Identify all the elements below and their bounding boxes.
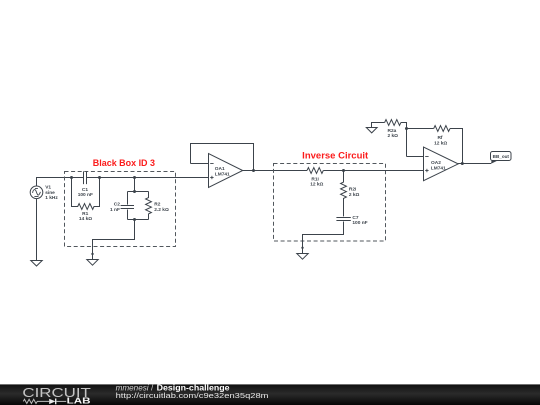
- resistor Rf: [434, 126, 450, 132]
- inverse circuit dashed boundary: [274, 164, 386, 242]
- V1 value labels: [45, 185, 58, 202]
- wire main input line right of C1 to OA1 plus input: [87, 177, 209, 179]
- svg-text:LM741: LM741: [215, 172, 230, 178]
- node dot bottom of C2/R2 pair: [133, 218, 136, 221]
- svg-text:OA2: OA2: [431, 160, 441, 166]
- ground (R2a): [366, 128, 377, 133]
- node dot summing node: [405, 127, 408, 130]
- svg-text:R2a: R2a: [387, 128, 396, 134]
- wire top bar of C2/R2 pair: [128, 191, 149, 193]
- CircuitLab logo resistor zigzag: [23, 399, 49, 403]
- ground (inverse circuit): [297, 254, 308, 260]
- C7 value labels: [352, 215, 367, 226]
- svg-text:2 kΩ: 2 kΩ: [387, 133, 398, 139]
- Rf value labels: [434, 135, 447, 146]
- ground (V1): [31, 261, 42, 267]
- svg-text:2 kΩ: 2 kΩ: [349, 192, 360, 198]
- svg-text:LAB: LAB: [67, 396, 91, 405]
- ground (black box): [87, 260, 98, 266]
- svg-text:C1: C1: [82, 187, 88, 193]
- R1i value labels: [310, 176, 323, 187]
- op-amp OA1: [209, 154, 243, 188]
- svg-text:1 kHz: 1 kHz: [45, 195, 58, 201]
- wire bottom bar of C2/R2 pair: [128, 219, 149, 221]
- resistor R2i with leads: [341, 171, 347, 217]
- wire C7 to ground: [303, 222, 344, 254]
- C1 value labels: [78, 187, 93, 198]
- svg-text:V1: V1: [45, 185, 51, 191]
- wire OA1 output to inverse circuit: [243, 170, 307, 172]
- R1 value labels: [79, 211, 92, 222]
- svg-text:R2: R2: [154, 202, 160, 208]
- wire summing node to OA2 inverting input: [407, 156, 424, 158]
- wire R2a to summing node: [401, 123, 407, 157]
- resistor R1i: [307, 168, 323, 174]
- capacitor C7: [336, 218, 350, 221]
- wire main input line left of C1: [36, 177, 84, 179]
- wire from main line down to C2/R2 pair: [134, 178, 136, 192]
- svg-text:Rf: Rf: [437, 135, 442, 141]
- R2 value labels: [154, 202, 169, 213]
- op-amp OA2: [424, 147, 459, 181]
- black box dashed boundary: [65, 172, 176, 247]
- svg-text:12 kΩ: 12 kΩ: [434, 140, 447, 146]
- wire OA1 inverting input stub: [191, 163, 209, 165]
- resistor R2a: [385, 120, 401, 126]
- svg-text:R2i: R2i: [349, 187, 356, 193]
- wire black box to ground: [93, 220, 135, 260]
- capacitor C2 with branch wires: [121, 192, 134, 220]
- wire summing node to Rf: [407, 128, 434, 130]
- net flag BB_out: [491, 152, 512, 164]
- R2a value labels: [387, 128, 398, 139]
- resistor R1 with branch wires: [72, 178, 100, 210]
- node dot OA1 output: [252, 169, 255, 172]
- svg-text:Black Box ID 3: Black Box ID 3: [93, 158, 155, 168]
- svg-text:R1: R1: [82, 211, 88, 217]
- svg-text:14 kΩ: 14 kΩ: [79, 216, 92, 222]
- node dot on inverse circuit ground lead: [301, 247, 303, 249]
- node dot top of C2/R2 pair: [133, 190, 136, 193]
- node dot OA2 output: [461, 162, 464, 165]
- node dot left of C1: [70, 176, 73, 179]
- svg-text:100 nF: 100 nF: [352, 220, 367, 226]
- capacitor C1: [84, 171, 87, 184]
- R2i value labels: [349, 187, 360, 199]
- wire V1 top lead: [36, 178, 38, 187]
- svg-text:1 nF: 1 nF: [110, 207, 120, 213]
- wire ground to R2a: [372, 123, 385, 128]
- wire OA2 output: [458, 163, 491, 165]
- svg-text:C2: C2: [114, 202, 120, 208]
- voltage source V1: [30, 186, 43, 199]
- svg-text:12 kΩ: 12 kΩ: [310, 182, 323, 188]
- node dot at C2/R2 branch on main wire: [133, 176, 136, 179]
- svg-text:http://circuitlab.com/c9e32en3: http://circuitlab.com/c9e32en35q28m: [116, 391, 269, 400]
- svg-text:Inverse Circuit: Inverse Circuit: [302, 151, 368, 161]
- svg-text:2.2 kΩ: 2.2 kΩ: [154, 207, 169, 213]
- node dot R1i/R2i junction: [342, 169, 345, 172]
- node dot on black box ground lead: [91, 253, 93, 255]
- wire OA1 feedback loop: [191, 144, 254, 171]
- resistor R2 with branch wires: [146, 192, 152, 220]
- wire V1 bottom lead: [36, 199, 38, 261]
- svg-text:100 nF: 100 nF: [78, 192, 93, 198]
- wire Rf to OA2 output: [450, 129, 463, 164]
- wire R1i to OA2 plus input: [323, 170, 423, 172]
- svg-text:OA1: OA1: [215, 166, 225, 172]
- footer bar: [0, 384, 540, 405]
- svg-text:BB_out: BB_out: [493, 154, 510, 159]
- CircuitLab logo diode: [49, 399, 66, 405]
- node dot right of C1: [98, 176, 101, 179]
- C2 value labels: [110, 202, 120, 213]
- svg-text:LM741: LM741: [431, 166, 446, 172]
- svg-text:R1i: R1i: [311, 176, 318, 182]
